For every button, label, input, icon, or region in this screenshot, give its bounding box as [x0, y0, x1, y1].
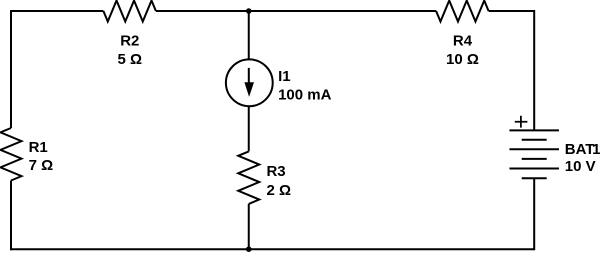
- svg-text:BAT1: BAT1: [565, 141, 600, 158]
- resistor R1: [1, 128, 22, 181]
- wire left rail lower segment: [10, 181, 12, 251]
- svg-text:10 V: 10 V: [565, 158, 596, 175]
- resistor R2: [103, 1, 155, 22]
- svg-text:7 Ω: 7 Ω: [29, 157, 54, 174]
- svg-text:10 Ω: 10 Ω: [446, 51, 479, 68]
- resistor R4: [436, 1, 489, 22]
- wire bottom rail: [10, 248, 534, 250]
- svg-text:5 Ω: 5 Ω: [118, 51, 143, 68]
- svg-text:R4: R4: [453, 33, 473, 50]
- battery BAT1: [509, 130, 559, 178]
- svg-text:R1: R1: [29, 139, 48, 156]
- wire right rail lower segment: [533, 178, 535, 250]
- battery BAT1 plus sign: [515, 116, 528, 128]
- svg-text:R2: R2: [120, 33, 139, 50]
- wire middle branch between I1 and R3: [248, 107, 250, 152]
- wire middle branch lower segment: [248, 204, 250, 249]
- wire middle branch upper segment: [248, 11, 250, 60]
- svg-text:R3: R3: [266, 163, 285, 180]
- current source I1: [226, 59, 273, 106]
- svg-text:100 mA: 100 mA: [278, 86, 332, 103]
- wire left rail upper segment: [10, 10, 12, 128]
- node junction bottom: [246, 246, 252, 252]
- svg-text:I1: I1: [278, 68, 291, 85]
- wire top rail right segment: [489, 10, 535, 12]
- wire top rail middle segment: [156, 10, 436, 12]
- wire right rail upper segment: [533, 10, 535, 130]
- wire top rail left segment: [11, 10, 103, 12]
- node junction top: [246, 8, 252, 14]
- resistor R3: [238, 151, 259, 204]
- svg-text:2 Ω: 2 Ω: [266, 182, 291, 199]
